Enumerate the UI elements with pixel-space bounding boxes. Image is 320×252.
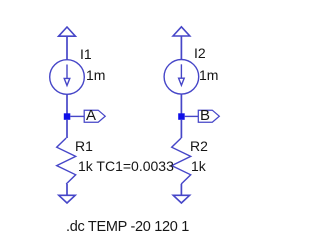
spice directive .dc TEMP -20 120 1 [66,219,189,235]
value 1m (I1) [86,67,105,83]
wire [70,115,84,117]
label I1 [80,46,92,62]
ground left [59,195,75,203]
value 1k (R2) [191,158,206,174]
value 1m (I2) [199,67,218,83]
power flag right (up triangle) [173,27,190,36]
power flag left (up triangle) [59,27,76,36]
net flag B outline [198,110,219,122]
label R1 [75,138,93,154]
junction node B [178,113,185,120]
net name B [200,108,210,124]
label I2 [194,45,206,61]
wire [180,120,182,138]
wire [66,36,68,59]
ground right [173,195,189,203]
wire [180,36,182,60]
wire [180,94,182,113]
value 1k TC1=0.0033 (R1) [78,158,174,174]
current source I2 [164,60,199,95]
net flag A outline [84,110,105,122]
wire [66,184,68,195]
net name A [86,108,96,124]
resistor R1 [57,138,76,184]
current source I1 [50,60,85,95]
wire [185,115,199,117]
resistor R2 [172,138,191,184]
wire [66,94,68,113]
wire [66,120,68,138]
label R2 [190,138,208,154]
wire [180,184,182,195]
junction node A [64,113,71,120]
